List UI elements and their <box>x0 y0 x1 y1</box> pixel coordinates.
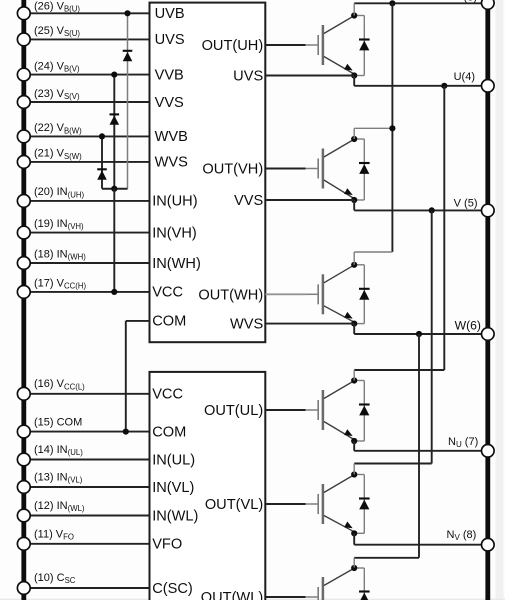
wire COM U1 to COM U2 <box>126 320 150 322</box>
terminal pin 12 <box>17 509 30 522</box>
wire bootstrap to VCC <box>113 189 115 292</box>
wire P riser to Q1 collector <box>353 3 355 15</box>
svg-text:VVS: VVS <box>155 95 184 111</box>
svg-text:COM: COM <box>152 314 186 330</box>
wire WVS feedback <box>265 323 354 325</box>
junction emitter Q2 <box>351 197 357 203</box>
wire V to Q5 collector <box>431 210 433 463</box>
wire pin 14 to block <box>24 459 150 461</box>
transistor Q6 (WL) <box>318 569 354 600</box>
transistor Q3 (WH) <box>318 265 354 321</box>
junction emitter Q4 <box>351 438 357 444</box>
junction emitter Q5 <box>351 530 357 536</box>
svg-text:UVS: UVS <box>155 32 185 48</box>
wire pin 12 to block <box>24 515 150 517</box>
freewheel diode D8 (VL) <box>354 475 369 534</box>
wire U output <box>353 76 355 86</box>
wire pin 25 to block <box>24 38 150 40</box>
junction VB(V) <box>111 72 117 78</box>
junction collector Q1 <box>351 12 357 18</box>
terminal pin 22 <box>17 130 30 143</box>
wire OUT(UL) gate <box>265 409 305 411</box>
wire pin 15 to block <box>24 431 150 433</box>
svg-text:VVS: VVS <box>234 193 263 209</box>
terminal V <box>482 204 495 217</box>
junction collector Q5 <box>351 471 357 477</box>
freewheel diode D6 (WH) <box>354 265 369 324</box>
terminal pin 15 <box>17 425 30 438</box>
junction emitter Q1 <box>351 72 357 78</box>
transistor Q2 (VH) <box>318 140 354 199</box>
junction P bus at Q2 <box>389 125 395 131</box>
terminal NU <box>482 445 495 458</box>
transistor Q4 (UL) <box>318 381 354 439</box>
svg-text:U(4): U(4) <box>454 71 475 83</box>
wire VB(V) bootstrap vertical <box>113 75 115 189</box>
wire V output <box>353 200 355 210</box>
wire pin 26 to block <box>24 12 150 14</box>
freewheel diode D9 (WL) <box>354 568 369 600</box>
wire VVS feedback <box>265 199 354 201</box>
terminal pin 25 <box>17 33 30 46</box>
svg-text:IN(WL): IN(WL) <box>152 508 198 524</box>
junction W <box>416 331 422 337</box>
wire NU output <box>353 441 355 451</box>
terminal pin 13 <box>17 481 30 494</box>
terminal P <box>482 0 495 9</box>
junction COM <box>123 429 129 435</box>
junction U <box>441 83 447 89</box>
svg-text:VFO: VFO <box>152 537 182 553</box>
terminal pin 21 <box>17 156 30 169</box>
svg-text:IN(WH): IN(WH) <box>152 256 201 272</box>
terminal W <box>482 328 495 341</box>
svg-text:WVB: WVB <box>155 129 188 145</box>
wire pin 17 to block <box>24 291 150 293</box>
wire OUT(VL) gate <box>265 503 305 505</box>
wire pin 16 to block <box>24 393 150 395</box>
wire pin 11 to block <box>24 543 150 545</box>
svg-text:(3): (3) <box>464 0 477 4</box>
terminal pin 10 <box>17 582 30 595</box>
wire U to Q4 collector <box>443 86 445 370</box>
wire pin 18 to block <box>24 262 150 264</box>
junction collector Q3 <box>351 262 357 268</box>
wire VB(W) bootstrap vertical <box>101 136 103 188</box>
wire pin 13 to block <box>24 486 150 488</box>
svg-text:WVS: WVS <box>155 155 189 171</box>
junction collector Q4 <box>351 377 357 383</box>
bootstrap diode D1 <box>123 50 133 52</box>
bootstrap diode D2 <box>110 113 120 115</box>
terminal pin 20 <box>17 195 30 208</box>
junction V <box>429 207 435 213</box>
svg-text:OUT(UH): OUT(UH) <box>202 38 264 54</box>
svg-text:V (5): V (5) <box>454 197 478 209</box>
terminal pin 24 <box>17 68 30 81</box>
svg-text:IN(VH): IN(VH) <box>152 225 197 241</box>
terminal pin 19 <box>17 226 30 239</box>
terminal U <box>482 80 495 93</box>
svg-text:W(6): W(6) <box>455 319 481 333</box>
svg-text:COM: COM <box>152 424 186 440</box>
wire OUT(VH) gate <box>265 168 305 170</box>
svg-text:IN(UH): IN(UH) <box>152 194 197 210</box>
svg-text:VCC: VCC <box>152 285 183 301</box>
svg-text:(15) COM: (15) COM <box>34 417 82 429</box>
wire P to Q3 collector <box>354 251 392 253</box>
right edge scan band <box>496 0 504 600</box>
wire P bus vertical <box>391 3 393 252</box>
svg-text:OUT(WH): OUT(WH) <box>198 288 263 304</box>
svg-text:UVS: UVS <box>233 69 263 85</box>
wire bootstrap common node <box>102 188 128 190</box>
junction VB(W) <box>99 133 105 139</box>
svg-text:C(SC): C(SC) <box>152 581 193 597</box>
terminal pin 18 <box>17 257 30 270</box>
LVIC block U2 <box>150 372 266 600</box>
terminal pin 11 <box>17 537 30 550</box>
wire pin 19 to block <box>24 232 150 234</box>
bootstrap diode D3 <box>97 168 107 170</box>
wire pin 22 to block <box>24 135 150 137</box>
terminal pin 26 <box>17 7 30 20</box>
svg-text:OUT(UL): OUT(UL) <box>204 403 263 419</box>
svg-text:UVB: UVB <box>155 6 185 22</box>
svg-text:NV (8): NV (8) <box>447 529 477 542</box>
wire pin 20 to block <box>24 200 150 202</box>
transistor Q1 (UH) <box>318 16 354 74</box>
junction collector Q2 <box>351 136 357 142</box>
svg-text:OUT(VH): OUT(VH) <box>202 162 263 178</box>
terminal pin 14 <box>17 453 30 466</box>
junction P bus <box>389 0 395 6</box>
terminal pin 17 <box>17 286 30 299</box>
wire W output <box>353 324 355 334</box>
svg-text:OUT(WL): OUT(WL) <box>201 590 263 600</box>
wire pin 10 to block <box>24 587 150 589</box>
wire UVS feedback <box>265 75 354 77</box>
wire P to Q2 collector <box>354 127 392 129</box>
terminal pin 16 <box>17 387 30 400</box>
wire W to Q6 collector <box>418 334 420 558</box>
freewheel diode D5 (VH) <box>354 139 369 200</box>
svg-text:NU (7): NU (7) <box>448 436 478 449</box>
junction bootstrap common <box>111 186 117 192</box>
wire OUT(UH) gate <box>265 44 305 46</box>
junction emitter Q3 <box>351 321 357 327</box>
wire pin 24 to block <box>24 74 150 76</box>
freewheel diode D7 (UL) <box>354 381 369 442</box>
transistor Q5 (VL) <box>318 475 354 531</box>
svg-text:VCC: VCC <box>152 387 183 403</box>
freewheel diode D4 (UH) <box>354 16 369 76</box>
svg-text:IN(UL): IN(UL) <box>152 452 195 468</box>
junction collector Q6 <box>351 565 357 571</box>
svg-text:IN(VL): IN(VL) <box>152 480 194 496</box>
wire OUT(WH) gate <box>265 293 305 295</box>
wire pin 21 to block <box>24 161 150 163</box>
terminal pin 23 <box>17 96 30 109</box>
terminal NV <box>482 538 495 551</box>
wire VB(U) bootstrap vertical <box>127 13 129 188</box>
wire OUT(WL) gate <box>265 596 305 598</box>
wire pin 23 to block <box>24 101 150 103</box>
left terminal bar <box>21 0 26 600</box>
junction VCC(H) <box>111 289 117 295</box>
HVIC block U1 <box>150 3 266 343</box>
svg-text:WVS: WVS <box>230 317 264 333</box>
wire NV output <box>353 533 355 544</box>
svg-text:VVB: VVB <box>155 67 184 83</box>
junction VB(U) <box>124 10 130 16</box>
right terminal bar <box>485 0 490 600</box>
svg-text:OUT(VL): OUT(VL) <box>205 497 263 513</box>
wire P rail <box>354 2 488 4</box>
